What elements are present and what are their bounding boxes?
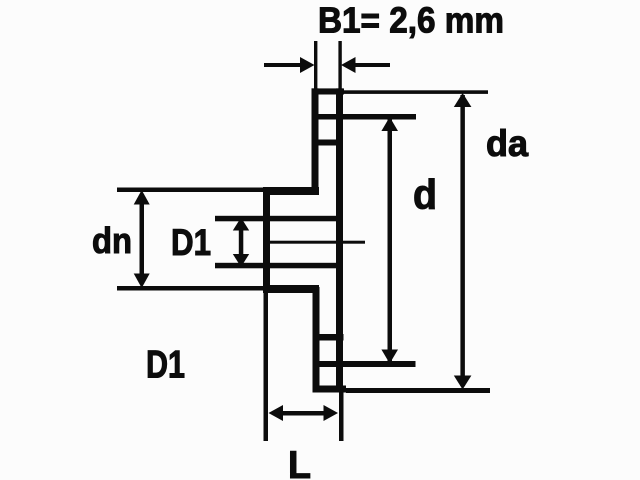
tooth rung C: [313, 334, 344, 341]
D1 top arrowhead: [233, 218, 249, 231]
L right arrowhead: [324, 405, 339, 421]
L dimension line: [278, 411, 329, 416]
tooth plate top cap: [312, 88, 345, 94]
B1 left dimension arrow shaft: [264, 63, 303, 67]
hub left edge: [263, 187, 270, 293]
B1 left arrowhead: [300, 57, 315, 73]
L left arrowhead: [269, 405, 284, 421]
d top arrowhead: [381, 117, 398, 131]
tooth rung A with d top extension line: [312, 114, 417, 120]
B1 right extension line: [338, 41, 341, 91]
da top extension line: [344, 90, 488, 94]
L left extension line: [264, 293, 269, 441]
bore bottom line with D1 extension: [215, 263, 336, 269]
svg-text:d: d: [413, 171, 437, 218]
svg-text:da: da: [486, 123, 528, 164]
dn top extension line: [117, 188, 263, 193]
svg-text:D1: D1: [146, 344, 185, 387]
tooth plate left edge lower segment: [313, 287, 320, 392]
da dimension line: [460, 95, 465, 386]
tooth plate left edge upper segment: [312, 88, 319, 192]
svg-text:B1= 2,6 mm: B1= 2,6 mm: [318, 0, 504, 41]
tooth rung D with d bottom extension line: [313, 361, 416, 367]
da bottom extension line: [346, 388, 490, 393]
D1 bottom arrowhead: [233, 254, 249, 267]
tooth plate bottom cap: [313, 386, 347, 393]
bore top line with D1 extension: [215, 216, 336, 222]
svg-text:L: L: [288, 444, 311, 480]
D1 dimension line: [239, 222, 244, 263]
da top arrowhead: [454, 93, 472, 107]
L right extension line: [339, 392, 344, 441]
B1 right arrowhead: [341, 57, 356, 73]
hub bottom line: [263, 285, 319, 293]
svg-text:D1: D1: [171, 222, 211, 263]
dn top arrowhead: [134, 190, 150, 205]
tooth plate right edge: [336, 88, 343, 392]
center line: [267, 241, 365, 244]
dn dimension line: [140, 194, 145, 284]
B1 left extension line: [314, 41, 317, 91]
tooth rung B: [312, 140, 344, 146]
da bottom arrowhead: [454, 376, 472, 390]
hub top line: [263, 187, 319, 195]
dn bottom arrowhead: [134, 274, 150, 289]
B1 right dimension arrow shaft: [353, 63, 390, 67]
dn bottom extension line: [117, 286, 263, 291]
svg-text:dn: dn: [92, 220, 132, 261]
d bottom arrowhead: [381, 350, 398, 364]
d dimension line: [388, 119, 393, 362]
